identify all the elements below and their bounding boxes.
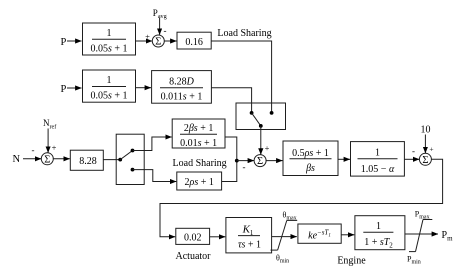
- wire K1 to block ke: [272, 236, 297, 238]
- summing junction S4: [419, 153, 431, 166]
- plus sign at S2 top input: [265, 143, 270, 153]
- wire C2 output to junction J1: [222, 162, 237, 182]
- switch SW1 box: [236, 103, 286, 130]
- svg-text:Pmin: Pmin: [407, 255, 421, 266]
- svg-text:0.05s + 1: 0.05s + 1: [90, 44, 127, 55]
- svg-text:Pmax: Pmax: [415, 210, 430, 221]
- SW2 upper contact dot: [131, 149, 135, 153]
- wire 0.02 to block K1: [210, 236, 226, 238]
- wire J1 to summer S2: [237, 160, 254, 162]
- limiter L2 bottom cap: [409, 251, 416, 253]
- minus sign at S2 left input: [243, 162, 246, 172]
- wire 8.28 to switch SW2: [103, 159, 120, 161]
- svg-text:0.011s + 1: 0.011s + 1: [161, 92, 203, 103]
- wire B to switch SW1 left contact: [211, 88, 251, 113]
- block B: 8.28D/(0.011s+1): [152, 71, 212, 104]
- output Pm label: [442, 230, 454, 243]
- SW1 right contact dot: [270, 111, 274, 115]
- wire SW2 lower contact to block C2: [133, 170, 177, 182]
- wire S4 feedback to block 0.02: [160, 159, 443, 237]
- block A1: 1/(0.05s+1): [83, 23, 136, 55]
- wire E1 to block E2: [338, 158, 350, 160]
- block C1: (2*beta*s+1)/(0.01s+1): [172, 119, 225, 149]
- wire 10 into S4: [424, 135, 426, 154]
- minus sign at S1 top input: [164, 26, 167, 36]
- svg-text:1: 1: [375, 148, 380, 159]
- block A2: 1/(0.05s+1): [83, 70, 136, 102]
- block 8.28: [70, 150, 103, 170]
- wire P to block A2: [67, 87, 82, 89]
- block 0.02: [176, 228, 210, 244]
- svg-text:θmax: θmax: [283, 211, 297, 222]
- svg-text:Load Sharing: Load Sharing: [217, 28, 271, 39]
- svg-text:Load Sharing: Load Sharing: [173, 158, 227, 169]
- SW1 pole dot: [259, 124, 263, 128]
- block C2: 2*rho*s+1: [177, 172, 222, 190]
- svg-text:P: P: [61, 84, 67, 95]
- svg-text:Σ: Σ: [422, 155, 428, 166]
- block E2: 1/(1.05-alpha): [351, 142, 405, 177]
- svg-text:N: N: [13, 154, 21, 165]
- svg-text:0.02: 0.02: [184, 233, 202, 244]
- wire A1 to summer S1: [136, 40, 153, 42]
- svg-text:1.05 − α: 1.05 − α: [361, 164, 395, 175]
- wire Pavg into S1: [159, 18, 161, 35]
- svg-text:-: -: [32, 145, 35, 155]
- svg-text:8.28: 8.28: [79, 156, 97, 167]
- svg-text:Σ: Σ: [155, 37, 161, 48]
- SW2 arm: [120, 151, 132, 160]
- svg-text:-: -: [164, 26, 167, 36]
- svg-text:Σ: Σ: [257, 156, 263, 167]
- wire SW2 upper contact to block C1: [133, 137, 172, 151]
- svg-text:2βs + 1: 2βs + 1: [184, 123, 214, 134]
- wire N to summer S3: [23, 158, 41, 160]
- SW1 arm: [252, 113, 261, 126]
- svg-text:τs + 1: τs + 1: [238, 240, 261, 251]
- minus sign at S3 left input: [32, 145, 35, 155]
- svg-text:-: -: [243, 162, 246, 172]
- label Load Sharing (middle): [173, 158, 227, 169]
- input N: [13, 154, 21, 165]
- label Engine: [337, 256, 366, 267]
- wire C1 output to junction J1: [225, 137, 237, 159]
- svg-text:Engine: Engine: [337, 256, 366, 267]
- svg-text:P: P: [61, 37, 67, 48]
- svg-text:0.16: 0.16: [185, 37, 203, 48]
- limiter L2 slant: [416, 220, 424, 252]
- svg-text:2ρs + 1: 2ρs + 1: [185, 177, 214, 188]
- label P min: [407, 255, 421, 266]
- input P (row 2): [61, 84, 67, 95]
- wire P to block A1: [67, 40, 82, 42]
- SW2 pole dot: [118, 158, 122, 162]
- svg-text:θmin: θmin: [276, 254, 289, 265]
- svg-text:0.01s + 1: 0.01s + 1: [180, 138, 217, 149]
- plus sign at S1 left input: [145, 32, 150, 42]
- wire A2 to block B: [136, 87, 152, 89]
- svg-text:+: +: [145, 32, 150, 42]
- junction J1 dot: [235, 159, 239, 163]
- svg-text:Σ: Σ: [44, 154, 50, 165]
- svg-text:Actuator: Actuator: [176, 251, 212, 262]
- label theta min: [276, 254, 289, 265]
- wire SW1 to summer S2: [260, 126, 262, 155]
- svg-text:1: 1: [107, 28, 112, 39]
- wire 0.16 to switch SW1 right contact: [211, 41, 271, 113]
- SW2 lower contact dot: [131, 168, 135, 172]
- limiter L1 slant: [278, 220, 287, 250]
- summing junction S3: [41, 153, 53, 166]
- constant 10 label: [421, 125, 431, 136]
- limiter L1 top cap: [287, 219, 297, 221]
- block 0.16: [177, 32, 211, 49]
- svg-text:10: 10: [421, 125, 431, 136]
- summing junction S1: [152, 35, 164, 48]
- input Pavg label: [153, 8, 167, 20]
- svg-text:Nref: Nref: [43, 118, 57, 130]
- plus sign at S3 top input: [52, 143, 57, 153]
- svg-text:βs: βs: [305, 163, 315, 174]
- input Nref label: [43, 118, 57, 130]
- SW1 left contact dot: [250, 111, 254, 115]
- wire ke to block T2: [341, 234, 354, 236]
- svg-text:0.05s + 1: 0.05s + 1: [90, 91, 127, 102]
- label Load Sharing (top): [217, 28, 271, 39]
- svg-text:1: 1: [107, 75, 112, 86]
- input P (row 1): [61, 37, 67, 48]
- svg-text:Pm: Pm: [442, 230, 454, 243]
- wire T2 to output Pm: [405, 233, 438, 235]
- block K1/(tau*s+1): [226, 218, 272, 253]
- block ke^{-sT1}: [298, 224, 341, 243]
- svg-text:8.28D: 8.28D: [169, 76, 195, 87]
- limiter L2 top cap: [423, 219, 432, 221]
- svg-text:ke−sT1: ke−sT1: [308, 229, 331, 242]
- svg-text:+: +: [265, 143, 270, 153]
- label theta max: [283, 211, 297, 222]
- minus sign at S4 left input: [412, 146, 415, 156]
- wire S1 to block 0.16: [164, 40, 177, 42]
- block 1/(1+sT2): [355, 216, 405, 250]
- svg-text:K1: K1: [242, 223, 254, 237]
- svg-text:+: +: [429, 145, 433, 154]
- svg-text:+: +: [52, 143, 57, 153]
- label P max: [415, 210, 430, 221]
- wire S2 to block E1: [266, 160, 283, 162]
- svg-text:0.5ρs + 1: 0.5ρs + 1: [292, 148, 329, 159]
- wire S3 to block 8.28: [53, 158, 70, 160]
- limiter L1 bottom cap: [271, 249, 278, 251]
- wire Nref into S3: [47, 129, 49, 153]
- summing junction S2: [254, 155, 266, 168]
- plus sign at S4 top input: [429, 145, 433, 154]
- svg-text:-: -: [412, 146, 415, 156]
- svg-text:1 + sT2: 1 + sT2: [364, 237, 393, 250]
- switch SW2 box: [116, 134, 144, 184]
- label Actuator: [176, 251, 212, 262]
- svg-text:1: 1: [376, 221, 381, 232]
- wire E2 to summer S4: [404, 158, 419, 160]
- block E1: (0.5*rho*s+1)/(beta*s): [283, 141, 338, 176]
